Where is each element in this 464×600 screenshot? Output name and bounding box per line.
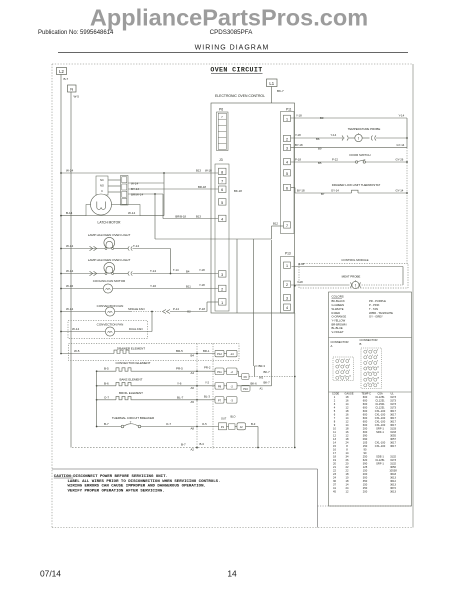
svg-text:CSA: CSA [378, 393, 383, 396]
svg-text:CONVECTION FAN: CONVECTION FAN [97, 304, 124, 308]
svg-text:4: 4 [221, 217, 223, 221]
svg-text:18: 18 [377, 378, 379, 380]
svg-text:200: 200 [363, 427, 368, 431]
svg-text:CONNECTOR: CONNECTOR [331, 340, 349, 344]
svg-text:3132: 3132 [390, 455, 396, 459]
svg-text:Y-18: Y-18 [296, 114, 302, 118]
svg-text:O-7: O-7 [104, 395, 109, 399]
svg-text:18: 18 [333, 455, 336, 459]
svg-text:O-5: O-5 [202, 422, 207, 426]
svg-text:Publication No: 5995648614: Publication No: 5995648614 [38, 30, 114, 36]
svg-text:12: 12 [346, 490, 349, 494]
svg-text:BR-3: BR-3 [259, 364, 266, 368]
svg-text:T-14: T-14 [133, 244, 139, 248]
svg-text:B-7: B-7 [64, 77, 69, 81]
svg-text:7: 7 [221, 180, 223, 184]
svg-text:5: 5 [372, 355, 373, 357]
svg-text:CXL-100: CXL-100 [375, 413, 386, 417]
svg-text:12: 12 [377, 366, 379, 368]
svg-text:NO: NO [100, 184, 104, 188]
svg-text:1: 1 [286, 264, 288, 268]
svg-text:B13: B13 [196, 215, 201, 219]
svg-text:19: 19 [333, 458, 336, 462]
svg-text:3643: 3643 [390, 472, 396, 476]
svg-text:AppliancePartsPros.com: AppliancePartsPros.com [90, 5, 368, 31]
svg-text:200: 200 [363, 490, 368, 494]
svg-text:4: 4 [334, 406, 336, 410]
svg-text:B: B [360, 342, 362, 346]
svg-text:3133: 3133 [390, 430, 396, 434]
svg-text:600: 600 [363, 413, 368, 417]
svg-text:18: 18 [346, 437, 349, 441]
svg-text:P-18: P-18 [199, 307, 205, 311]
svg-text:6: 6 [377, 355, 378, 357]
svg-text:OVEN CIRCUIT: OVEN CIRCUIT [210, 67, 262, 74]
svg-text:Y-14: Y-14 [399, 114, 405, 118]
svg-text:150: 150 [363, 483, 368, 487]
svg-text:DOOR SWITCH: DOOR SWITCH [350, 153, 371, 157]
svg-text:BR-BROWN: BR-BROWN [332, 322, 347, 326]
svg-text:T-14: T-14 [150, 269, 156, 273]
svg-text:Y-6: Y-6 [177, 381, 182, 385]
svg-text:WIRING DIAGRAM: WIRING DIAGRAM [195, 45, 270, 52]
svg-text:9: 9 [377, 361, 378, 363]
svg-text:P-18: P-18 [295, 157, 301, 161]
svg-text:COOLING FAN MOTOR: COOLING FAN MOTOR [93, 279, 126, 283]
svg-text:PR-5: PR-5 [176, 367, 183, 371]
svg-text:LAMP HALOGEN OVEN LIGHT: LAMP HALOGEN OVEN LIGHT [88, 258, 131, 262]
svg-text:4: 4 [367, 355, 368, 357]
svg-text:3617: 3617 [390, 409, 396, 413]
svg-text:18: 18 [346, 472, 349, 476]
svg-text:SRF-1: SRF-1 [376, 462, 384, 466]
svg-text:VERIFY PROPER OPERATION AFTER: VERIFY PROPER OPERATION AFTER SERVICING. [68, 489, 165, 493]
svg-text:W-5: W-5 [74, 95, 80, 99]
svg-text:Y-18: Y-18 [199, 283, 205, 287]
svg-text:13: 13 [333, 437, 336, 441]
svg-text:DUAL FAN: DUAL FAN [129, 327, 143, 331]
svg-text:W/BR - TAN/WHITE: W/BR - TAN/WHITE [369, 311, 393, 315]
svg-text:3055: 3055 [390, 434, 396, 438]
svg-text:21: 21 [333, 465, 336, 469]
svg-text:GY-14: GY-14 [396, 188, 404, 192]
svg-text:16: 16 [346, 413, 349, 417]
svg-text:W-WHITE: W-WHITE [332, 307, 344, 311]
svg-text:B-7: B-7 [181, 443, 186, 447]
svg-text:Y-18: Y-18 [199, 268, 205, 272]
svg-text:3617: 3617 [390, 444, 396, 448]
svg-text:600: 600 [363, 399, 368, 403]
svg-text:BR-5: BR-5 [176, 349, 183, 353]
svg-text:CXL-100: CXL-100 [375, 441, 386, 445]
svg-text:BL-BLUE: BL-BLUE [332, 326, 343, 330]
svg-text:17: 17 [333, 451, 336, 455]
svg-text:A: A [331, 344, 333, 348]
svg-text:24: 24 [333, 476, 336, 480]
svg-text:22: 22 [346, 469, 349, 473]
svg-text:BK-6: BK-6 [251, 381, 258, 385]
svg-text:J3: J3 [219, 158, 223, 162]
svg-text:Y-14: Y-14 [331, 133, 337, 137]
svg-text:TEMPERATURE PROBE: TEMPERATURE PROBE [348, 127, 381, 131]
svg-text:3: 3 [334, 402, 336, 406]
svg-text:11: 11 [333, 430, 336, 434]
svg-text:18: 18 [346, 479, 349, 483]
svg-text:-2: -2 [231, 370, 234, 374]
svg-text:6: 6 [221, 188, 223, 192]
svg-text:GAUGE: GAUGE [345, 393, 354, 396]
svg-text:10538: 10538 [389, 469, 397, 473]
svg-text:22: 22 [346, 465, 349, 469]
svg-text:4: 4 [286, 161, 288, 165]
svg-text:W-14: W-14 [131, 182, 138, 186]
svg-text:P12: P12 [217, 352, 222, 356]
svg-text:GY-14: GY-14 [397, 143, 405, 147]
svg-text:J2: J2 [240, 425, 243, 429]
svg-text:16: 16 [346, 430, 349, 434]
svg-text:A5: A5 [191, 400, 195, 404]
svg-text:GY-14: GY-14 [331, 188, 339, 192]
svg-text:CL1501: CL1501 [375, 402, 385, 406]
svg-text:BLO: BLO [231, 416, 236, 419]
svg-text:B13: B13 [196, 169, 201, 173]
svg-text:3132: 3132 [390, 462, 396, 466]
svg-text:W-16: W-16 [66, 284, 73, 288]
svg-text:23: 23 [333, 472, 336, 476]
svg-text:Y-18: Y-18 [295, 133, 301, 137]
svg-text:B5: B5 [318, 161, 322, 165]
svg-text:C: C [101, 189, 103, 193]
svg-text:24: 24 [346, 441, 349, 445]
svg-text:3617: 3617 [390, 423, 396, 427]
svg-text:Y-YELLOW: Y-YELLOW [332, 318, 346, 322]
svg-text:CONNECTOR: CONNECTOR [360, 338, 378, 342]
svg-text:4: 4 [286, 306, 288, 310]
svg-text:B9: B9 [318, 147, 322, 151]
svg-text:B4: B4 [186, 270, 190, 274]
svg-text:CXL-100: CXL-100 [375, 416, 386, 420]
svg-text:6: 6 [334, 413, 336, 417]
svg-text:600: 600 [363, 406, 368, 410]
svg-text:15: 15 [377, 372, 379, 374]
svg-text:14: 14 [227, 569, 237, 579]
svg-text:1: 1 [367, 350, 368, 352]
svg-text:150: 150 [363, 469, 368, 473]
svg-text:24: 24 [346, 486, 349, 490]
svg-text:600: 600 [363, 402, 368, 406]
svg-text:7: 7 [286, 224, 288, 228]
svg-text:BK-7: BK-7 [264, 380, 271, 384]
svg-text:LAMP HALOGEN OVEN LIGHT: LAMP HALOGEN OVEN LIGHT [88, 233, 131, 237]
svg-text:LABEL ALL WIRES PRIOR TO DISCO: LABEL ALL WIRES PRIOR TO DISCONNECTION W… [68, 480, 221, 484]
svg-text:BR-18: BR-18 [198, 185, 206, 189]
svg-text:34: 34 [346, 455, 349, 459]
svg-text:SDE-1: SDE-1 [376, 455, 384, 459]
svg-text:2: 2 [221, 287, 223, 291]
svg-text:300: 300 [363, 476, 368, 480]
svg-text:Y-18: Y-18 [297, 280, 303, 284]
svg-text:NC: NC [100, 178, 104, 182]
svg-text:BK-7: BK-7 [277, 89, 284, 93]
svg-text:-14: -14 [230, 352, 234, 356]
svg-text:3672: 3672 [390, 486, 396, 490]
svg-text:CL1251: CL1251 [375, 406, 385, 410]
svg-text:600: 600 [363, 423, 368, 427]
svg-text:G-18: G-18 [298, 262, 305, 266]
svg-text:L1: L1 [269, 81, 274, 86]
svg-text:BK-18: BK-18 [234, 189, 242, 193]
svg-text:36: 36 [333, 479, 336, 483]
svg-text:3173: 3173 [390, 406, 396, 410]
svg-text:V-VIOLET: V-VIOLET [332, 330, 344, 334]
svg-text:14: 14 [346, 423, 349, 427]
svg-text:3173: 3173 [390, 458, 396, 462]
svg-text:W-14: W-14 [66, 307, 73, 311]
svg-text:14: 14 [346, 451, 349, 455]
svg-text:12: 12 [333, 434, 336, 438]
svg-text:3613: 3613 [390, 483, 396, 487]
svg-text:3173: 3173 [390, 402, 396, 406]
svg-text:3: 3 [221, 273, 223, 277]
svg-text:390: 390 [363, 434, 368, 438]
svg-text:300: 300 [363, 430, 368, 434]
svg-text:SRF-1: SRF-1 [376, 427, 384, 431]
svg-text:BL-7: BL-7 [177, 395, 184, 399]
svg-text:16: 16 [346, 399, 349, 403]
svg-text:9: 9 [349, 370, 350, 372]
svg-text:45: 45 [333, 490, 336, 494]
svg-text:7: 7 [367, 361, 368, 363]
svg-text:BAKE ELEMENT: BAKE ELEMENT [119, 378, 142, 382]
svg-text:26: 26 [346, 458, 349, 462]
svg-text:LATCH MOTOR: LATCH MOTOR [98, 221, 122, 225]
svg-text:BR-1: BR-1 [203, 349, 210, 353]
svg-text:P1: P1 [221, 425, 225, 429]
svg-text:3056: 3056 [390, 465, 396, 469]
svg-text:7: 7 [221, 115, 223, 119]
svg-text:W2: W2 [259, 375, 264, 379]
svg-text:T-14: T-14 [173, 268, 179, 272]
svg-text:200: 200 [363, 472, 368, 476]
svg-text:BR/W-14: BR/W-14 [131, 193, 143, 197]
svg-text:CAUTION:DISCONNECT POWER BEFOR: CAUTION:DISCONNECT POWER BEFORE SERVICIN… [54, 475, 168, 479]
svg-text:P6: P6 [219, 108, 223, 112]
svg-text:P7: P7 [218, 398, 222, 402]
svg-text:OUT: OUT [221, 418, 227, 421]
svg-text:CXL-100: CXL-100 [375, 409, 386, 413]
svg-text:B-3: B-3 [251, 422, 256, 426]
svg-text:6: 6 [286, 187, 288, 191]
svg-text:07/14: 07/14 [40, 569, 61, 579]
svg-text:L2: L2 [59, 69, 64, 74]
svg-text:W-5: W-5 [74, 349, 80, 353]
svg-text:090: 090 [363, 437, 368, 441]
svg-text:5: 5 [334, 409, 336, 413]
svg-text:B7: B7 [321, 192, 325, 196]
svg-text:B12: B12 [273, 222, 278, 226]
svg-text:A2: A2 [191, 448, 195, 452]
svg-text:B-3: B-3 [200, 442, 205, 446]
svg-text:16: 16 [333, 448, 336, 452]
svg-text:5: 5 [344, 364, 345, 366]
svg-text:W-14: W-14 [128, 211, 135, 215]
svg-text:SINGLE FAN: SINGLE FAN [128, 307, 144, 311]
svg-text:18: 18 [346, 409, 349, 413]
svg-text:P10: P10 [243, 387, 248, 391]
svg-text:-2: -2 [231, 384, 234, 388]
svg-text:3133: 3133 [390, 427, 396, 431]
svg-text:PR - PURPLE: PR - PURPLE [369, 299, 386, 303]
svg-text:90: 90 [364, 451, 367, 455]
svg-text:3612: 3612 [390, 479, 396, 483]
svg-text:P11: P11 [217, 370, 222, 374]
svg-text:W-14: W-14 [66, 269, 73, 273]
svg-text:8: 8 [221, 170, 223, 174]
svg-text:W-14: W-14 [66, 169, 73, 173]
svg-text:3617: 3617 [390, 441, 396, 445]
svg-text:8: 8 [334, 420, 336, 424]
svg-text:DRAWER LOW LIMIT THERMOSTAT: DRAWER LOW LIMIT THERMOSTAT [332, 183, 381, 187]
svg-text:PR-2: PR-2 [204, 366, 211, 370]
svg-text:5: 5 [221, 201, 223, 205]
svg-text:CXL-100: CXL-100 [375, 423, 386, 427]
svg-text:P13: P13 [285, 252, 291, 256]
svg-text:B3: B3 [320, 116, 324, 120]
svg-text:T - TAN: T - TAN [369, 307, 378, 311]
svg-text:20: 20 [346, 462, 349, 466]
svg-text:Y-16: Y-16 [150, 284, 156, 288]
svg-text:10: 10 [333, 427, 336, 431]
svg-text:A6: A6 [191, 386, 195, 390]
svg-text:90: 90 [364, 448, 367, 452]
svg-text:3617: 3617 [390, 420, 396, 424]
svg-text:600: 600 [363, 416, 368, 420]
svg-text:THERMAL CIRCUIT BREAKER: THERMAL CIRCUIT BREAKER [112, 416, 155, 420]
svg-text:3: 3 [286, 297, 288, 301]
svg-text:350: 350 [363, 479, 368, 483]
svg-text:P8: P8 [218, 384, 222, 388]
svg-text:CONVECTION ELEMENT: CONVECTION ELEMENT [115, 361, 150, 365]
svg-text:150: 150 [363, 444, 368, 448]
svg-text:GY-26: GY-26 [396, 157, 404, 161]
svg-text:B-6: B-6 [104, 381, 109, 385]
svg-text:CL1251: CL1251 [375, 395, 385, 399]
svg-text:1: 1 [286, 117, 288, 121]
svg-text:8: 8 [346, 444, 348, 448]
svg-text:BY-18: BY-18 [295, 143, 303, 147]
svg-text:8: 8 [372, 361, 373, 363]
svg-text:4: 4 [339, 364, 340, 366]
svg-text:3: 3 [286, 147, 288, 151]
svg-text:A4: A4 [191, 371, 195, 375]
svg-text:P-22: P-22 [332, 157, 338, 161]
svg-text:B-5: B-5 [104, 367, 109, 371]
svg-text:P-14: P-14 [173, 307, 179, 311]
svg-text:t: t [358, 137, 359, 141]
svg-text:N: N [70, 87, 73, 92]
svg-text:41: 41 [333, 486, 336, 490]
svg-text:15: 15 [333, 444, 336, 448]
svg-text:18: 18 [346, 395, 349, 399]
svg-text:P - PINK: P - PINK [369, 303, 380, 307]
svg-text:P11: P11 [286, 108, 292, 112]
svg-text:O-ORANGE: O-ORANGE [332, 315, 347, 319]
svg-text:A1: A1 [260, 386, 264, 390]
svg-text:2: 2 [286, 138, 288, 142]
svg-text:W-18: W-18 [205, 169, 212, 173]
svg-text:G-GREEN: G-GREEN [332, 303, 345, 307]
svg-text:3173: 3173 [390, 395, 396, 399]
svg-text:20: 20 [333, 462, 336, 466]
svg-text:B-7: B-7 [104, 422, 109, 426]
svg-text:UL: UL [391, 393, 395, 396]
svg-text:BROIL ELEMENT: BROIL ELEMENT [119, 391, 143, 395]
svg-text:CL1251: CL1251 [375, 399, 385, 403]
svg-text:250: 250 [363, 455, 368, 459]
svg-text:12: 12 [346, 406, 349, 410]
svg-text:COLORS: COLORS [332, 295, 344, 299]
svg-text:F6: F6 [244, 375, 248, 379]
svg-text:SRF-1: SRF-1 [376, 430, 384, 434]
svg-text:2: 2 [372, 350, 373, 352]
svg-text:620: 620 [363, 458, 368, 462]
svg-text:22: 22 [333, 469, 336, 473]
svg-text:WIRING ERRORS CAN CAUSE IMPROP: WIRING ERRORS CAN CAUSE IMPROPER AND DAN… [68, 485, 206, 489]
svg-text:1: 1 [221, 301, 223, 305]
svg-text:G2: G2 [187, 309, 191, 313]
svg-text:14: 14 [346, 483, 349, 487]
svg-text:18: 18 [346, 427, 349, 431]
svg-text:t: t [355, 284, 356, 288]
svg-text:9: 9 [334, 423, 336, 427]
svg-text:21: 21 [377, 383, 379, 385]
svg-text:600: 600 [363, 420, 368, 424]
svg-text:ELECTRONIC OVEN CONTROL: ELECTRONIC OVEN CONTROL [215, 94, 265, 98]
svg-text:3: 3 [377, 350, 378, 352]
svg-text:CONTROL MODULE: CONTROL MODULE [341, 258, 368, 262]
svg-text:CODE: CODE [332, 393, 340, 396]
svg-text:6: 6 [349, 364, 350, 366]
svg-text:CXL-100: CXL-100 [375, 444, 386, 448]
svg-text:-3: -3 [231, 398, 234, 402]
svg-text:O-7: O-7 [166, 422, 171, 426]
svg-text:BL-3: BL-3 [204, 394, 210, 398]
svg-text:3617: 3617 [390, 413, 396, 417]
svg-text:37: 37 [333, 483, 336, 487]
svg-text:3173: 3173 [390, 399, 396, 403]
svg-text:600: 600 [363, 395, 368, 399]
svg-text:125: 125 [363, 465, 368, 469]
svg-text:2: 2 [286, 283, 288, 287]
svg-text:3: 3 [349, 359, 350, 361]
svg-text:2: 2 [334, 399, 336, 403]
svg-text:B4: B4 [191, 354, 195, 358]
svg-text:BY-18: BY-18 [297, 188, 305, 192]
svg-text:1: 1 [334, 395, 336, 399]
svg-text:3613: 3613 [390, 490, 396, 494]
svg-text:3613: 3613 [390, 476, 396, 480]
svg-text:7: 7 [339, 370, 340, 372]
svg-text:B11: B11 [186, 284, 191, 288]
svg-text:390: 390 [363, 462, 368, 466]
svg-text:12: 12 [346, 434, 349, 438]
svg-text:12: 12 [346, 420, 349, 424]
svg-text:Y-2: Y-2 [205, 380, 210, 384]
svg-text:A8: A8 [191, 427, 195, 431]
svg-text:B-14: B-14 [66, 211, 73, 215]
svg-text:W-14: W-14 [66, 244, 73, 248]
svg-text:250: 250 [363, 486, 368, 490]
